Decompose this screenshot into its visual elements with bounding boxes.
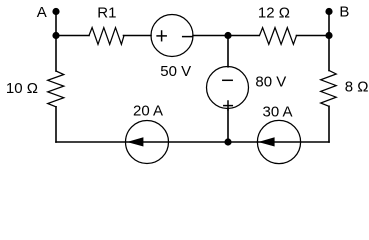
junction dot B: [325, 32, 332, 39]
resistor 8 ohm: [321, 71, 337, 107]
svg-text:80 V: 80 V: [255, 74, 286, 91]
wire middle vertical lower: [227, 108, 229, 142]
wire bottom right through 30A: [258, 141, 330, 143]
svg-text:R1: R1: [97, 5, 116, 22]
voltage source 50 V: [151, 15, 193, 57]
wire 12ohm to B junction: [297, 35, 330, 37]
svg-text:8 Ω: 8 Ω: [345, 79, 369, 96]
resistor 10 ohm: [48, 71, 64, 107]
current source 30 A: [257, 120, 300, 163]
voltage source 80 V: [207, 67, 249, 111]
resistor R1: [89, 28, 124, 45]
wire middle vertical upper: [227, 36, 229, 67]
wire left rail upper: [55, 36, 57, 72]
wire left rail lower: [55, 107, 57, 142]
wire 50V to 12ohm: [193, 35, 259, 37]
wire top-right B stub: [328, 12, 330, 36]
junction dot top middle: [224, 32, 231, 39]
arrow of 20 A source: [127, 137, 144, 146]
svg-text:A: A: [37, 4, 47, 21]
wire top-left A stub: [55, 12, 57, 36]
svg-text:20 A: 20 A: [133, 102, 163, 119]
junction dot A: [52, 32, 59, 39]
svg-text:10 Ω: 10 Ω: [6, 80, 38, 97]
arrow of 30 A source: [258, 137, 274, 146]
svg-text:B: B: [339, 4, 349, 21]
wire right rail lower: [328, 106, 330, 142]
node A terminal dot: [52, 8, 59, 15]
node B terminal dot: [325, 8, 332, 15]
wire top from A junction to R1: [56, 35, 89, 37]
svg-text:50 V: 50 V: [160, 63, 191, 80]
resistor 12 ohm: [260, 28, 297, 45]
wire bottom from left corner through 20A: [56, 141, 258, 143]
wire R1 to 50V source: [124, 35, 152, 37]
junction dot bottom middle: [224, 138, 231, 145]
current source 20 A: [126, 121, 169, 164]
wire right rail upper: [328, 36, 330, 71]
svg-text:30 A: 30 A: [263, 103, 293, 120]
svg-text:12 Ω: 12 Ω: [258, 4, 290, 21]
